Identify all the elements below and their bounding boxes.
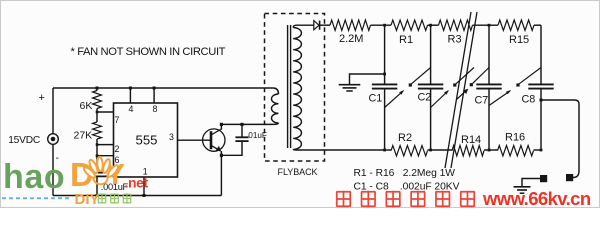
wire bottom row left (385, 149, 391, 151)
resistor R1 (391, 20, 428, 30)
wire emitter down (220, 151, 222, 196)
capacitor C8 plates (528, 83, 553, 85)
svg-text:R16: R16 (505, 132, 525, 144)
wire chain lower (96, 139, 98, 172)
wire secondary bottom (293, 149, 384, 152)
wire cap to ground rail (96, 176, 98, 195)
junction pin8 rail (153, 87, 156, 90)
junction cap ground (96, 194, 99, 197)
resistor 6K (93, 91, 102, 109)
svg-text:R14: R14 (461, 134, 481, 146)
connector J1 15VDC (48, 134, 59, 145)
svg-text:C2: C2 (418, 92, 432, 104)
spark gap dot (516, 83, 519, 86)
spark gap lower arm (489, 91, 510, 106)
svg-text:8: 8 (153, 104, 158, 114)
svg-text:+: + (39, 92, 45, 104)
wire ground bottom rail (53, 195, 221, 197)
flyback transformer dashed box (265, 14, 325, 162)
svg-text:C1 - C8 .002uF 20KV: C1 - C8 .002uF 20KV (354, 182, 460, 193)
spark gap dot (409, 83, 412, 86)
wire diode out (320, 24, 330, 26)
svg-text:R15: R15 (509, 34, 529, 46)
svg-text:C8: C8 (522, 94, 536, 106)
junction emitter cap node (220, 154, 223, 157)
wire R1 to R3 (428, 24, 439, 26)
svg-text:27K: 27K (74, 130, 93, 142)
wire rail node7 upper (488, 25, 490, 84)
svg-text:hao: hao (3, 158, 65, 196)
svg-text:R1: R1 (399, 34, 413, 46)
wire rail node2 lower (430, 89, 432, 150)
wire R15 out (534, 24, 541, 26)
resistor 27K (93, 122, 102, 139)
wire left rail upper (52, 88, 54, 134)
spark gap lower arm (385, 91, 404, 108)
capacitor C2 plates (418, 83, 443, 85)
transformer core (287, 25, 289, 148)
capacitor C .01uF (235, 136, 248, 138)
junction rail node1 bottom (383, 149, 386, 152)
junction ground rail (383, 73, 386, 76)
wire rail node2 upper (430, 25, 432, 84)
spark gap upper arm (412, 68, 431, 84)
junction node2 top (429, 24, 432, 27)
spark gap upper arm (473, 68, 489, 84)
wire stub pin2 (97, 144, 114, 146)
spark gap upper arm (456, 68, 474, 84)
transistor Q1 (203, 129, 225, 151)
watermark tagline cjk (98, 193, 132, 204)
svg-text:R3: R3 (448, 34, 462, 46)
junction pin1 ground (143, 194, 146, 197)
wire collector (220, 124, 223, 129)
svg-text:2.2M: 2.2M (339, 33, 363, 45)
watermark haoDIY logo (3, 156, 149, 196)
junction pin2 node (96, 143, 99, 146)
svg-text:R2: R2 (398, 132, 412, 144)
svg-text:FLYBACK: FLYBACK (278, 167, 318, 177)
wire 2.2M to R1 (371, 24, 392, 26)
spark gap arrowhead (463, 89, 468, 94)
inductor primary winding (271, 94, 278, 123)
svg-text:C7: C7 (475, 95, 489, 107)
inductor secondary winding (293, 28, 301, 150)
diode D1 (314, 21, 320, 30)
wire R2 to break (428, 149, 453, 151)
wire snubber top stub (241, 124, 243, 137)
wire pin1 to ground (143, 177, 145, 196)
svg-text:R1 - R16 2.2Meg 1W: R1 - R16 2.2Meg 1W (354, 168, 456, 179)
svg-text:3: 3 (169, 132, 174, 142)
svg-text:4: 4 (129, 104, 134, 114)
capacitor C .001uF (90, 172, 107, 174)
wire ground branch right (522, 179, 544, 187)
wire pin8 to rail (153, 88, 155, 103)
resistor R3 (439, 20, 473, 30)
svg-text:555: 555 (135, 133, 157, 148)
wire R14 to node7 (484, 149, 498, 151)
IC U1 555 body (114, 103, 178, 177)
wire rail node8 lower (540, 89, 542, 150)
junction snubber top (240, 123, 243, 126)
wire stub pin6 (97, 155, 114, 157)
wire left rail lower (52, 144, 54, 195)
resistor R2 (391, 146, 428, 156)
junction 6K rail (96, 87, 99, 90)
wire collector node to primary (221, 123, 278, 124)
svg-text:.net: .net (125, 175, 149, 191)
junction pin4 rail (129, 87, 132, 90)
svg-text:C1: C1 (369, 93, 383, 105)
resistor R16 (498, 146, 534, 156)
resistor R14 (452, 146, 484, 156)
spark gap dot (453, 83, 456, 86)
ground symbol left (339, 74, 385, 91)
spark gap dot (470, 83, 473, 86)
svg-text:DIY: DIY (75, 191, 100, 208)
wire rail node1 lower (384, 89, 386, 150)
node +15V top rail wire (53, 88, 279, 94)
spark gap upper arm (519, 68, 541, 84)
wire rail node1 upper (384, 25, 386, 84)
wire pin3 to base (178, 139, 212, 141)
wire rail node8 upper (540, 25, 542, 84)
svg-text:2: 2 (115, 144, 120, 154)
junction node1 top (383, 24, 386, 27)
capacitor C7 plates (476, 83, 501, 85)
spark gap lower arm (457, 90, 468, 100)
svg-text:15VDC: 15VDC (8, 135, 40, 146)
break continuation slashes (445, 12, 471, 168)
svg-text:6K: 6K (80, 100, 93, 112)
wire HV output (541, 100, 579, 178)
resistor 2.2M (330, 20, 371, 30)
ground symbol right (514, 186, 531, 188)
junction collector node (220, 123, 223, 126)
spark gap arrowhead (506, 90, 511, 94)
junction pin6 node (96, 154, 99, 157)
svg-text:www.66kv.cn: www.66kv.cn (482, 188, 591, 208)
wire R16 to node8 (534, 149, 542, 151)
wire rail node7 lower (488, 89, 490, 150)
watermark 66kv red (336, 188, 591, 209)
wire R3 to R15 (473, 24, 499, 26)
spark gap arrowhead (399, 90, 404, 95)
spark gap lower arm (431, 91, 448, 108)
wire chain top stub (96, 88, 98, 91)
capacitor C1 plates (372, 83, 397, 85)
terminal HV output (566, 174, 573, 181)
wire secondary top (293, 25, 313, 27)
junction rail node2 bottom (429, 149, 432, 152)
terminal ground branch (540, 175, 547, 182)
junction output tap (540, 99, 543, 102)
junction rail node8 bottom (540, 149, 543, 152)
watermark dashed underline (2, 197, 72, 199)
wire chain middle (96, 109, 98, 123)
wire pin4 to rail (129, 88, 131, 103)
wire snubber bottom stub (221, 141, 242, 155)
spark gap arrowhead (444, 90, 449, 95)
junction rail node7 bottom (488, 149, 491, 152)
resistor R15 (498, 20, 534, 30)
wire stub pin7 (97, 111, 114, 113)
svg-text:* FAN NOT SHOWN IN CIRCUIT: * FAN NOT SHOWN IN CIRCUIT (71, 46, 226, 58)
svg-text:7: 7 (115, 115, 120, 125)
junction pin7 node (96, 111, 99, 114)
junction node7 top (488, 24, 491, 27)
